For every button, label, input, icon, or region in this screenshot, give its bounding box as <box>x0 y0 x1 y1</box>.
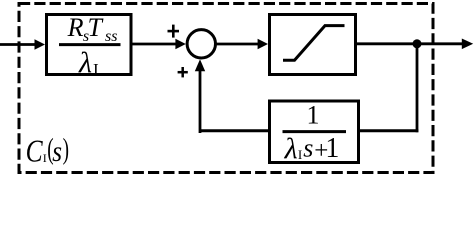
svg-text:I: I <box>43 151 47 165</box>
svg-text:s: s <box>52 135 62 168</box>
summing junction circle <box>187 30 215 58</box>
plus sign (upper input of summer) <box>168 30 180 33</box>
gain block R_sT_ss/lambda_I <box>47 15 132 75</box>
fraction bar of gain block <box>59 43 121 46</box>
svg-text:I: I <box>298 147 302 162</box>
svg-text:T: T <box>88 13 104 42</box>
fraction bar of filter block <box>283 130 347 133</box>
output arrowhead <box>462 39 473 50</box>
svg-text:λ: λ <box>284 133 298 166</box>
svg-text:1: 1 <box>325 133 339 164</box>
svg-text:I: I <box>93 60 99 79</box>
svg-text:C: C <box>26 132 44 168</box>
wire: feedback from node down <box>416 44 419 132</box>
wire: saturation block to output <box>356 42 462 45</box>
svg-text:1: 1 <box>307 100 320 129</box>
wire: summer to saturation block <box>216 43 260 46</box>
wire: feedback into filter block right side <box>358 129 418 132</box>
wire: filter block output to below summer <box>200 129 270 132</box>
wire: input into block R_sT_ss/lambda_I <box>0 43 36 46</box>
svg-text:s: s <box>303 134 313 163</box>
svg-text:): ) <box>63 133 69 166</box>
filter block 1/(lambda_I s+1) <box>270 101 359 163</box>
svg-text:R: R <box>67 13 84 42</box>
dashed boundary box of controller C_I(s) <box>19 4 433 173</box>
svg-text:ss: ss <box>105 28 117 45</box>
svg-text:λ: λ <box>78 46 92 79</box>
node: output branch point <box>413 39 422 48</box>
wire: feedback up into summer <box>199 70 202 133</box>
wire: gain block to summing junction <box>131 43 177 46</box>
saturation block <box>270 15 356 75</box>
plus sign (lower input of summer) <box>178 71 188 74</box>
saturation curve <box>283 26 345 61</box>
